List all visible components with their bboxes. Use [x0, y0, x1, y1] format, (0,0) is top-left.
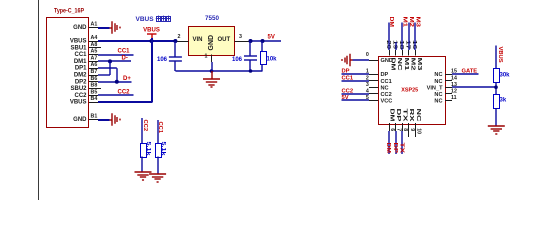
wire GND pin to ground	[353, 59, 370, 61]
svg-text:M2: M2	[408, 17, 414, 28]
wire B6 DP2 D+ net	[98, 81, 132, 83]
svg-text:GND: GND	[73, 117, 87, 123]
node D+ label	[123, 76, 131, 82]
pin 11 NC of U3	[434, 95, 456, 105]
junction rail at U2 GND	[210, 69, 214, 73]
pin 18 M1 of U3	[398, 40, 409, 70]
svg-text:VBUS: VBUS	[143, 28, 160, 34]
sheet border line	[38, 0, 40, 200]
junction rail at C2	[249, 69, 253, 73]
svg-text:TX: TX	[398, 143, 404, 154]
svg-text:DP: DP	[342, 69, 350, 75]
junction D- at DM2 riser	[108, 59, 112, 63]
resistor R2 5.1k	[141, 118, 147, 172]
svg-text:OUT: OUT	[218, 37, 231, 43]
svg-text:DM: DM	[388, 17, 394, 28]
wire CC1 net from A5	[98, 54, 134, 56]
capacitor C2 106	[244, 41, 257, 71]
pin 4 CC2 of U3	[342, 89, 392, 99]
pin 2 VIN of U2	[175, 34, 202, 43]
svg-text:3k: 3k	[500, 98, 507, 104]
svg-text:14: 14	[451, 75, 457, 81]
pin 17 M2 of U3	[405, 40, 416, 70]
svg-text:1: 1	[205, 54, 208, 60]
svg-text:VBUS: VBUS	[70, 100, 87, 106]
pin 20 DM of U3	[385, 40, 396, 71]
pin 3 OUT of U2	[218, 34, 251, 43]
svg-text:XSP25: XSP25	[401, 87, 418, 93]
svg-text:DM2: DM2	[74, 73, 87, 79]
pin 13 VIN_T of U3	[427, 82, 457, 92]
svg-text:VBUS: VBUS	[497, 47, 503, 63]
pin B6 DP2 of J1	[75, 76, 98, 86]
pin 1 DP of U3	[342, 69, 389, 79]
svg-text:6: 6	[389, 128, 395, 131]
svg-text:3: 3	[239, 34, 242, 40]
stub B8 SBU2	[98, 88, 101, 90]
svg-text:M1: M1	[401, 17, 407, 28]
pin 6 DM of U3	[388, 109, 395, 132]
wire A1 GND	[98, 27, 110, 29]
wire A6 DP1	[98, 67, 117, 69]
svg-text:A7: A7	[91, 55, 98, 61]
svg-text:20: 20	[385, 40, 391, 49]
svg-text:DP: DP	[392, 143, 398, 154]
pin 14 NC of U3	[434, 75, 457, 85]
wire DM net from pin 20	[388, 17, 394, 51]
pin A1 GND of J1	[73, 22, 98, 32]
junction D+ at DP riser	[115, 80, 119, 84]
wire R5 to ground	[495, 108, 497, 126]
node GATE label	[462, 68, 478, 74]
ground left of U3	[342, 54, 353, 67]
svg-text:RX: RX	[408, 109, 414, 122]
svg-text:CC1: CC1	[118, 49, 131, 55]
node CC1 label vertical	[157, 122, 163, 134]
svg-text:30k: 30k	[500, 73, 511, 79]
svg-text:VBUS: VBUS	[136, 16, 155, 23]
svg-text:DM1: DM1	[74, 59, 87, 65]
wire TX net from pin 8	[398, 131, 404, 154]
svg-text:GND: GND	[208, 35, 215, 51]
svg-text:CC1: CC1	[381, 79, 392, 85]
ground below U2	[203, 71, 220, 87]
pin A8 SBU1 of J1	[70, 42, 98, 52]
svg-text:0: 0	[366, 52, 369, 58]
pin 10 NC of U3	[415, 109, 422, 138]
junction at R 10k top	[261, 39, 265, 43]
svg-text:TX: TX	[402, 109, 408, 122]
connector J1 body	[47, 18, 89, 128]
svg-text:B5: B5	[91, 89, 98, 95]
node CC2 label vertical	[142, 120, 148, 132]
svg-text:10: 10	[415, 128, 421, 134]
junction VBUS at C1	[173, 39, 177, 43]
svg-text:A8: A8	[91, 42, 98, 48]
wire VIN_T pin 13 to divider	[452, 86, 496, 88]
svg-text:CC2: CC2	[381, 92, 392, 98]
value 5.1k of R2	[145, 142, 151, 157]
svg-text:12: 12	[451, 89, 457, 95]
pin 19 NC of U3	[391, 40, 402, 70]
pin B4 VBUS of J1	[70, 96, 98, 106]
svg-text:VIN: VIN	[193, 37, 203, 43]
pin 12 NC of U3	[434, 89, 457, 99]
value 30k of R4	[500, 73, 511, 79]
pin B7 DM2 of J1	[74, 69, 98, 79]
svg-text:B1: B1	[91, 114, 98, 120]
pin 1 GND of U2	[205, 35, 215, 62]
wire DM net from pin 6	[385, 131, 391, 154]
text VBUS load note	[136, 16, 171, 23]
wire DP riser A6 to B6	[116, 68, 118, 82]
value 3k of R5	[500, 98, 507, 104]
svg-text:M2: M2	[409, 58, 415, 71]
wire M3 net from pin 16	[415, 17, 421, 51]
ground at A1	[110, 21, 121, 34]
svg-text:9: 9	[409, 128, 415, 131]
svg-text:DP: DP	[395, 109, 401, 122]
wire M2 net from pin 17	[408, 17, 414, 51]
resistor R5 3k	[494, 95, 500, 109]
capacitor C1 106	[169, 41, 182, 71]
svg-text:GND: GND	[73, 25, 87, 31]
svg-text:5V: 5V	[342, 95, 349, 101]
svg-text:A6: A6	[91, 62, 98, 68]
pin B8 SBU2 of J1	[70, 83, 98, 93]
stub A8 SBU1	[98, 47, 101, 49]
svg-text:DP2: DP2	[75, 79, 87, 85]
svg-text:3: 3	[366, 82, 369, 88]
wire DM riser A7 to B7	[109, 61, 111, 75]
node 5V label	[268, 35, 275, 41]
value 106 of C1	[157, 57, 168, 63]
svg-text:5.1k: 5.1k	[145, 142, 151, 157]
wire between divider resistors	[495, 82, 497, 94]
svg-text:NC: NC	[415, 109, 421, 122]
svg-text:M1: M1	[403, 58, 409, 71]
svg-text:VIN_T: VIN_T	[427, 85, 443, 91]
svg-text:B4: B4	[91, 96, 98, 102]
svg-text:18: 18	[398, 40, 404, 49]
svg-text:7550: 7550	[205, 15, 220, 22]
ground below divider	[488, 126, 505, 134]
svg-text:NC: NC	[434, 79, 442, 85]
svg-text:DM: DM	[385, 143, 391, 154]
pin B1 GND of J1	[73, 114, 98, 124]
svg-text:D-: D-	[122, 56, 128, 62]
ground below R2	[135, 172, 152, 180]
wire VBUS vertical trunk	[151, 38, 153, 102]
node D- label	[122, 56, 128, 62]
node VBUS label vertical	[497, 47, 503, 63]
node CC2 label	[118, 90, 131, 96]
svg-text:CC2: CC2	[74, 93, 87, 99]
svg-text:106: 106	[232, 57, 243, 63]
svg-text:16: 16	[411, 40, 417, 49]
svg-text:10k: 10k	[267, 56, 278, 62]
svg-text:5V: 5V	[268, 35, 275, 41]
pin 2 CC1 of U3	[342, 75, 392, 85]
wire CC2 net from B5	[98, 94, 134, 96]
value 10k of R1	[267, 56, 278, 62]
wire DP net from pin 7	[392, 131, 398, 154]
wire D- net from A7	[98, 60, 131, 62]
svg-text:DM: DM	[390, 58, 396, 72]
svg-text:NC: NC	[396, 58, 402, 71]
regulator U2 body	[189, 27, 235, 56]
wire ground rail	[175, 70, 262, 72]
svg-text:A1: A1	[91, 22, 98, 28]
chip U3 body	[379, 57, 446, 125]
svg-text:8: 8	[402, 128, 408, 131]
svg-text:D+: D+	[123, 76, 131, 82]
svg-text:Type-C_16P: Type-C_16P	[54, 8, 84, 15]
wire U2 GND to rail	[211, 62, 213, 71]
svg-text:5.1k: 5.1k	[160, 142, 166, 157]
chip U3 name XSP25	[401, 87, 418, 93]
svg-text:NC: NC	[381, 85, 389, 91]
svg-text:CC1: CC1	[74, 52, 87, 58]
wire VBUS A4 to regulator input	[98, 40, 175, 42]
svg-text:CC1: CC1	[342, 75, 354, 81]
node VBUS power port	[143, 28, 160, 39]
svg-text:DM: DM	[388, 109, 394, 123]
resistor R1 10k	[261, 41, 267, 71]
svg-text:M3: M3	[416, 58, 422, 71]
pin A7 DM1 of J1	[74, 55, 98, 65]
pin 8 TX of U3	[402, 109, 409, 132]
svg-text:DP: DP	[381, 72, 389, 78]
svg-text:M3: M3	[415, 17, 421, 28]
pin 7 DP of U3	[395, 109, 402, 132]
svg-text:SBU2: SBU2	[70, 86, 87, 92]
svg-text:11: 11	[451, 95, 457, 101]
pin A5 CC1 of J1	[74, 49, 98, 59]
node CC1 label	[118, 49, 131, 55]
svg-text:A5: A5	[91, 49, 98, 55]
regulator U2 7550 title	[205, 15, 220, 22]
svg-text:CC2: CC2	[142, 120, 148, 132]
wire VBUS to divider	[495, 46, 497, 69]
svg-text:SBU1: SBU1	[70, 45, 87, 51]
svg-text:B7: B7	[91, 69, 98, 75]
value 5.1k of R3	[160, 142, 166, 157]
pin 16 M3 of U3	[411, 40, 422, 70]
pin A4 VBUS of J1	[70, 35, 98, 45]
wire B7 DM2	[98, 74, 110, 76]
pin 3 NC of U3	[366, 82, 389, 92]
pin 15 NC of U3	[434, 69, 457, 79]
pin 0 GND of U3	[366, 52, 393, 64]
svg-text:CC2: CC2	[118, 90, 131, 96]
wire GATE net from pin 15	[452, 73, 479, 75]
svg-text:NC: NC	[434, 92, 442, 98]
svg-text:NC: NC	[434, 99, 442, 105]
pin 5 VCC of U3	[342, 95, 393, 105]
svg-text:2: 2	[178, 34, 181, 40]
junction VBUS trunk on A4 wire	[150, 39, 154, 43]
pin A6 DP1 of J1	[75, 62, 98, 72]
resistor R4 30k	[494, 69, 500, 83]
svg-text:A4: A4	[91, 35, 98, 41]
connector J1 Type-C_16P title	[54, 8, 84, 15]
value 106 of C2	[232, 57, 243, 63]
svg-text:17: 17	[405, 40, 411, 49]
svg-text:7: 7	[396, 128, 402, 131]
resistor R3 5.1k	[156, 120, 162, 174]
svg-text:NC: NC	[434, 72, 442, 78]
junction divider tap	[494, 85, 498, 89]
wire B4 VBUS	[98, 101, 152, 103]
svg-text:B6: B6	[91, 76, 98, 82]
svg-text:B8: B8	[91, 83, 98, 89]
svg-text:GATE: GATE	[462, 68, 478, 74]
pin 9 RX of U3	[408, 109, 415, 138]
pin B5 CC2 of J1	[74, 89, 98, 99]
wire M1 net from pin 18	[401, 17, 407, 51]
svg-text:VBUS: VBUS	[70, 39, 87, 45]
ground at B1	[110, 113, 121, 126]
ground below R3	[149, 174, 166, 182]
svg-text:106: 106	[157, 57, 168, 63]
svg-text:CC2: CC2	[342, 89, 354, 95]
junction at C2 top	[249, 39, 253, 43]
wire OUT to 5V	[251, 40, 282, 42]
svg-text:DP1: DP1	[75, 66, 87, 72]
svg-text:VCC: VCC	[381, 99, 393, 105]
wire B1 GND	[98, 119, 110, 121]
